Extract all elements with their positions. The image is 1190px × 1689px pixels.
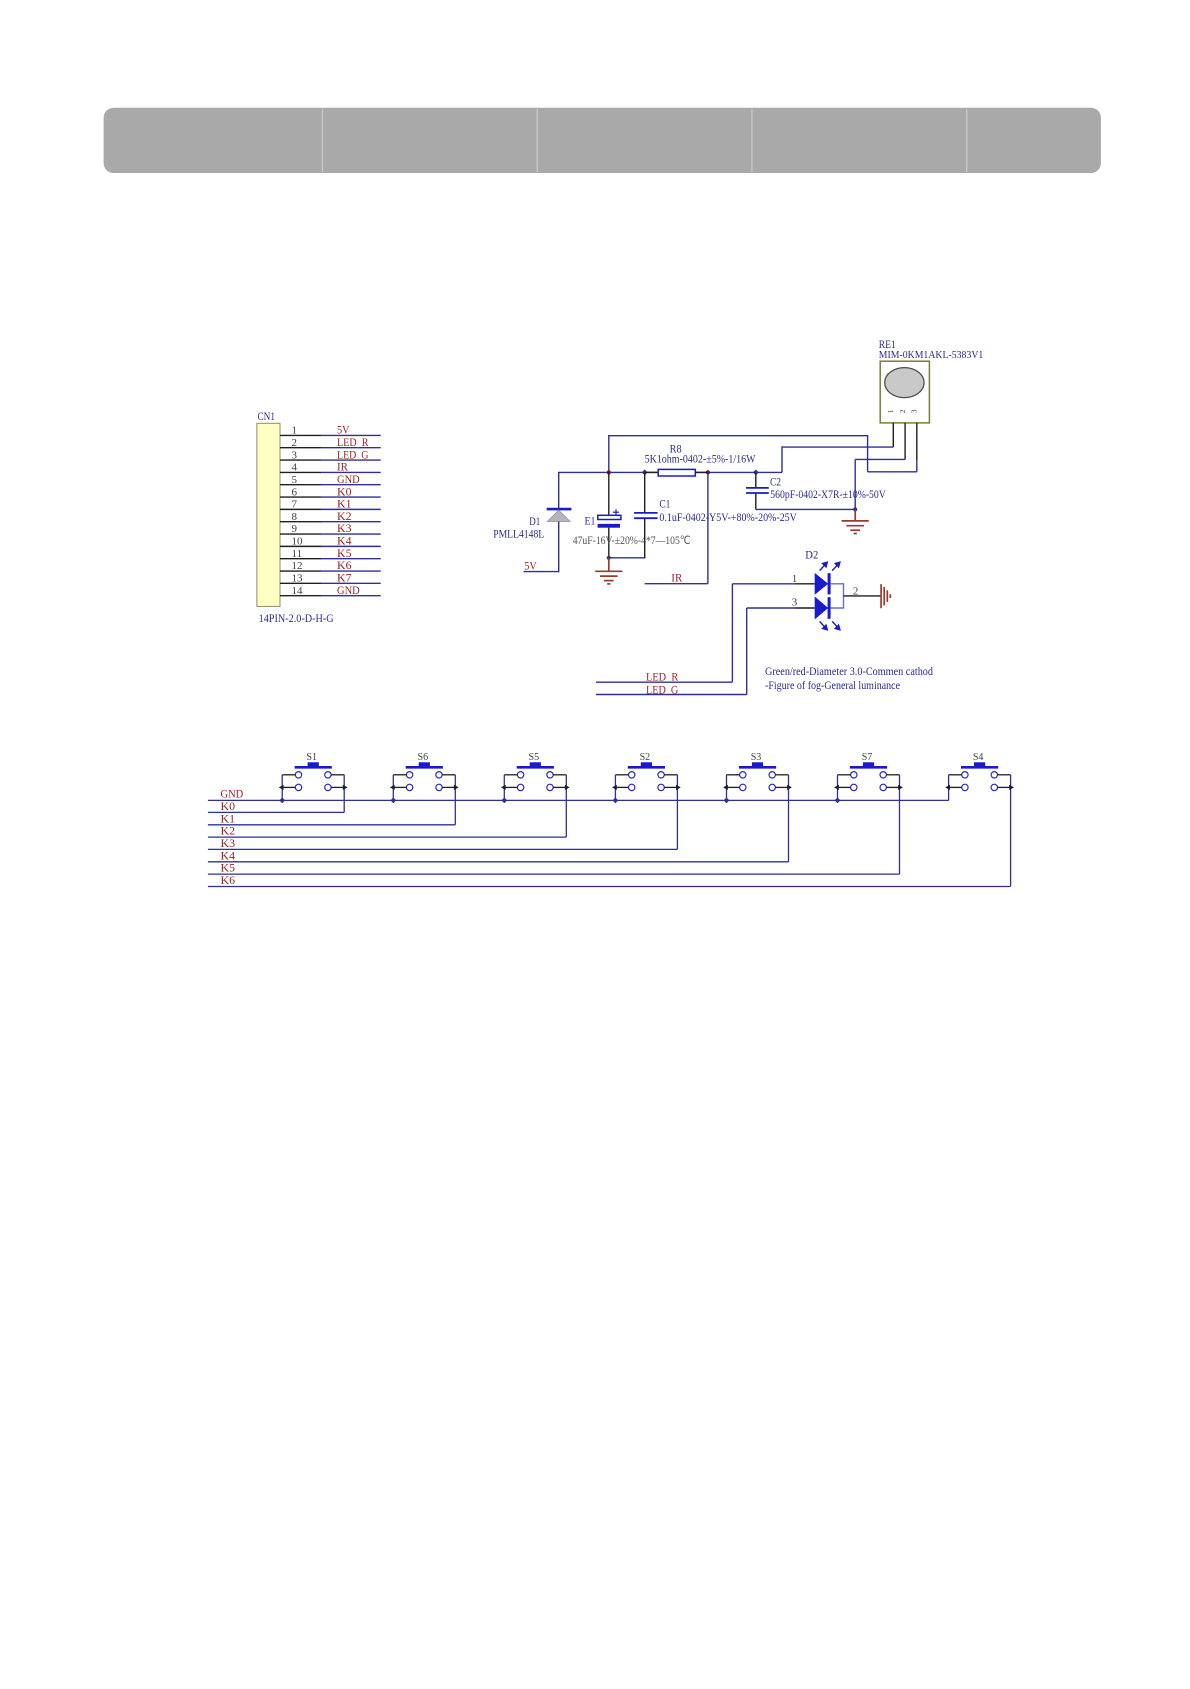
svg-text:K2: K2 xyxy=(337,511,352,523)
wire RE1 pin2 riser xyxy=(854,459,856,509)
junction S6 on GND rail xyxy=(390,798,396,804)
capacitor C1 bottom lead xyxy=(644,518,646,558)
CN1 pin 11 wire xyxy=(280,558,381,560)
svg-text:S2: S2 xyxy=(640,752,651,763)
diode D1 cathode bar xyxy=(547,508,572,511)
svg-text:0.1uF-0402-Y5V-+80%-20%-25V: 0.1uF-0402-Y5V-+80%-20%-25V xyxy=(659,512,797,524)
svg-text:CN1: CN1 xyxy=(258,411,276,423)
net K2 rail xyxy=(208,836,566,838)
svg-text:MIM-0KM1AKL-5383V1: MIM-0KM1AKL-5383V1 xyxy=(879,349,984,361)
switch S2 contact circles xyxy=(629,772,665,791)
CN1 pin 2 wire xyxy=(280,447,381,449)
junction at C2 top xyxy=(753,470,759,476)
svg-text:13: 13 xyxy=(292,573,304,585)
svg-text:K6: K6 xyxy=(221,875,236,887)
wire LED_G vertical xyxy=(746,608,748,695)
wire LED_R vertical xyxy=(731,584,733,682)
CN1 pin 9 wire xyxy=(280,533,381,535)
switch S6 pin stubs xyxy=(393,775,455,788)
diode D1 anode wire xyxy=(558,522,560,572)
switch S3 contact circles xyxy=(740,772,776,791)
page header bar (gray rounded banner) xyxy=(104,108,1101,173)
svg-text:K4: K4 xyxy=(337,536,352,548)
switch S7 actuator bar xyxy=(850,766,887,769)
switch S2 junction arrows xyxy=(612,785,681,790)
net K1 rail xyxy=(208,824,455,826)
switch S3 right vertical to K4 xyxy=(788,775,790,862)
switch S1 right vertical to K0 xyxy=(343,775,345,813)
CN1 pin 6 wire xyxy=(280,496,381,498)
svg-text:K3: K3 xyxy=(221,838,236,850)
svg-text:LED_G: LED_G xyxy=(337,449,369,461)
junction at C1 top xyxy=(642,470,648,476)
svg-text:2: 2 xyxy=(853,585,859,597)
switch S7 contact circles xyxy=(851,772,887,791)
diode D1 cathode wire xyxy=(558,472,560,509)
wire RE1 pin1 riser xyxy=(781,446,783,472)
junction S1 on GND rail xyxy=(279,798,285,804)
capacitor E1 negative plate xyxy=(598,524,620,528)
switch S2 right vertical to K3 xyxy=(676,775,678,850)
wire RE1 pin2 horizontal xyxy=(855,458,905,460)
RE1 pin 1 stub xyxy=(892,423,894,447)
svg-text:4: 4 xyxy=(292,462,298,474)
CN1 pin 8 wire xyxy=(280,521,381,523)
wire E1/C1 ground rail xyxy=(609,557,645,559)
resistor R8 right stub xyxy=(695,471,708,473)
switch S4 pin stubs xyxy=(949,775,1011,788)
switch S5 actuator bar xyxy=(517,766,554,769)
svg-text:S3: S3 xyxy=(751,752,762,763)
switch S4 junction arrows xyxy=(945,785,1014,790)
CN1 pin 10 wire xyxy=(280,545,381,547)
svg-text:11: 11 xyxy=(292,548,303,560)
capacitor E1 bottom lead xyxy=(608,528,610,558)
svg-text:K6: K6 xyxy=(337,560,352,572)
wire 5V top horizontal run xyxy=(609,435,868,437)
capacitor E1 top lead xyxy=(608,472,610,515)
switch S4 left vertical to GND xyxy=(948,775,950,801)
svg-text:S6: S6 xyxy=(418,752,429,763)
capacitor C2 top plate xyxy=(746,487,769,489)
svg-text:5: 5 xyxy=(292,474,298,486)
junction S2 on GND rail xyxy=(613,798,619,804)
CN1 pin 12 wire xyxy=(280,570,381,572)
switch S1 actuator bar xyxy=(295,766,332,769)
switch S1 left vertical to GND xyxy=(281,775,283,801)
wire 5V drop to main node xyxy=(608,435,610,472)
svg-text:LED_G: LED_G xyxy=(646,684,678,696)
capacitor C2 bottom lead xyxy=(755,493,757,509)
svg-text:IR: IR xyxy=(671,573,682,585)
diode D1 body (gray triangle) xyxy=(547,510,570,521)
switch S7 left vertical to GND xyxy=(837,775,839,801)
connector CN1 body xyxy=(257,423,280,606)
LED D2 common cathode bracket xyxy=(831,584,844,608)
svg-text:1: 1 xyxy=(792,573,798,585)
switch S2 button xyxy=(641,762,652,767)
net K6 rail xyxy=(208,886,1011,888)
net GND rail xyxy=(208,799,949,801)
wire IR riser to R8 output xyxy=(707,472,709,583)
svg-text:K7: K7 xyxy=(337,573,352,585)
svg-text:K5: K5 xyxy=(337,548,352,560)
svg-text:IR: IR xyxy=(337,462,348,474)
switch S3 pin stubs xyxy=(727,775,789,788)
svg-text:3: 3 xyxy=(792,597,798,609)
resistor R8 body xyxy=(658,469,695,476)
svg-text:S4: S4 xyxy=(973,752,984,763)
switch S6 junction arrows xyxy=(390,785,459,790)
CN1 pin 3 wire xyxy=(280,459,381,461)
switch S1 button xyxy=(308,762,319,767)
switch S5 junction arrows xyxy=(501,785,570,790)
svg-text:10: 10 xyxy=(292,536,304,548)
switch S5 right vertical to K2 xyxy=(565,775,567,837)
svg-text:PMLL4148L: PMLL4148L xyxy=(493,529,544,541)
switch S2 actuator bar xyxy=(628,766,665,769)
wire 5V to RE1 pin3 horizontal xyxy=(868,471,917,473)
CN1 pin 1 wire xyxy=(280,434,381,436)
svg-text:K0: K0 xyxy=(221,801,236,813)
switch S2 pin stubs xyxy=(615,775,677,788)
svg-text:LED_R: LED_R xyxy=(337,437,369,449)
wire IR stub horizontal xyxy=(645,583,708,585)
svg-text:1: 1 xyxy=(886,409,895,413)
switch S7 pin stubs xyxy=(838,775,900,788)
CN1 pin 14 wire xyxy=(280,595,381,597)
svg-text:5K1ohm-0402-±5%-1/16W: 5K1ohm-0402-±5%-1/16W xyxy=(645,453,756,465)
CN1 pin 5 wire xyxy=(280,484,381,486)
svg-text:9: 9 xyxy=(292,523,298,535)
LED D2 emission arrows (bottom) xyxy=(820,621,840,629)
switch S4 actuator bar xyxy=(961,766,998,769)
svg-text:C1: C1 xyxy=(659,498,670,510)
svg-text:5V: 5V xyxy=(524,561,537,573)
svg-text:8: 8 xyxy=(292,511,298,523)
svg-text:K5: K5 xyxy=(221,863,236,875)
svg-text:1: 1 xyxy=(292,425,298,437)
svg-text:S7: S7 xyxy=(862,752,873,763)
switch S5 left vertical to GND xyxy=(503,775,505,801)
ground symbol (at RE1) xyxy=(842,509,869,533)
svg-text:GND: GND xyxy=(221,788,244,800)
ground symbol (D2 common cathode, sideways) xyxy=(881,584,890,608)
svg-text:3: 3 xyxy=(292,449,298,461)
wire 5V stub to D1 xyxy=(524,571,560,573)
RE1 pin 2 stub xyxy=(904,423,906,460)
net K4 rail xyxy=(208,861,789,863)
CN1 pin 7 wire xyxy=(280,508,381,510)
svg-text:12: 12 xyxy=(292,560,303,572)
junction at C2 ground node xyxy=(853,507,857,511)
svg-text:2: 2 xyxy=(898,409,907,413)
switch S4 right vertical to K6 xyxy=(1010,775,1012,887)
svg-text:7: 7 xyxy=(292,499,298,511)
net K5 rail xyxy=(208,873,900,875)
switch S4 contact circles xyxy=(962,772,998,791)
svg-text:14PIN-2.0-D-H-G: 14PIN-2.0-D-H-G xyxy=(259,611,334,625)
svg-text:3: 3 xyxy=(910,409,919,413)
capacitor E1 plus sign xyxy=(613,509,619,515)
svg-text:K0: K0 xyxy=(337,486,352,498)
svg-text:K1: K1 xyxy=(221,813,236,825)
capacitor C2 bottom plate xyxy=(746,492,769,494)
capacitor C2 top lead xyxy=(755,472,757,488)
wire LED_G horizontal xyxy=(596,694,747,696)
switch S6 right vertical to K1 xyxy=(454,775,456,825)
svg-text:47uF-16V-±20%-4*7—105℃: 47uF-16V-±20%-4*7—105℃ xyxy=(573,535,691,547)
switch S3 left vertical to GND xyxy=(726,775,728,801)
svg-text:K3: K3 xyxy=(337,523,352,535)
net K3 rail xyxy=(208,848,678,850)
svg-text:D1: D1 xyxy=(529,516,540,528)
CN1 pin 4 wire xyxy=(280,471,381,473)
node junction at E1 top xyxy=(607,470,611,474)
switch S7 button xyxy=(863,762,874,767)
receiver RE1 body xyxy=(880,361,929,423)
svg-text:S1: S1 xyxy=(306,752,317,763)
switch S6 contact circles xyxy=(406,772,442,791)
capacitor E1 positive plate xyxy=(598,515,621,519)
capacitor C1 bottom plate xyxy=(634,517,658,519)
switch S4 button xyxy=(974,762,985,767)
LED D2 red diode triangle xyxy=(815,573,829,595)
switch S1 pin stubs xyxy=(282,775,344,788)
CN1 pin 13 wire xyxy=(280,582,381,584)
resistor R8 left stub xyxy=(645,471,659,473)
capacitor C1 top plate xyxy=(634,512,658,514)
switch S6 left vertical to GND xyxy=(392,775,394,801)
switch S3 actuator bar xyxy=(739,766,776,769)
LED D2 red cathode bar xyxy=(828,573,831,594)
LED D2 red anode wire (pin 1) xyxy=(732,583,814,585)
svg-text:560pF-0402-X7R-±10%-50V: 560pF-0402-X7R-±10%-50V xyxy=(770,489,886,501)
svg-text:GND: GND xyxy=(337,474,360,486)
receiver RE1 lens (gray ellipse) xyxy=(885,368,924,398)
svg-text:6: 6 xyxy=(292,486,298,498)
capacitor C1 top lead xyxy=(644,472,646,513)
svg-text:K2: K2 xyxy=(221,826,236,838)
svg-text:D2: D2 xyxy=(805,550,818,562)
switch S5 contact circles xyxy=(517,772,553,791)
svg-text:Green/red-Diameter 3.0-Commen: Green/red-Diameter 3.0-Commen cathod xyxy=(765,666,933,678)
RE1 pin 3 stub xyxy=(916,423,918,472)
svg-text:E1: E1 xyxy=(585,516,596,528)
LED D2 green diode triangle xyxy=(815,597,829,620)
svg-text:K1: K1 xyxy=(337,499,352,511)
svg-text:LED_R: LED_R xyxy=(646,671,679,683)
node junction at IR branch xyxy=(706,470,710,474)
svg-text:K4: K4 xyxy=(221,850,236,862)
svg-text:-Figure of fog-General luminan: -Figure of fog-General luminance xyxy=(765,680,900,692)
switch S5 pin stubs xyxy=(504,775,566,788)
wire 5V right corner down xyxy=(867,435,869,472)
junction at E1 ground node xyxy=(607,556,611,560)
switch S7 junction arrows xyxy=(834,785,903,790)
switch S3 junction arrows xyxy=(723,785,792,790)
wire LED_R horizontal xyxy=(596,681,732,683)
junction S7 on GND rail xyxy=(835,798,841,804)
switch S2 left vertical to GND xyxy=(614,775,616,801)
switch S6 actuator bar xyxy=(406,766,443,769)
junction S3 on GND rail xyxy=(724,798,730,804)
svg-text:S5: S5 xyxy=(529,752,540,763)
wire R8 output to corner xyxy=(695,471,782,473)
wire RE1 pin1 horizontal xyxy=(782,446,893,448)
LED D2 emission arrows (top) xyxy=(820,562,840,570)
switch S6 button xyxy=(419,762,430,767)
switch S5 button xyxy=(530,762,541,767)
svg-text:C2: C2 xyxy=(770,476,781,488)
net K0 rail xyxy=(208,811,344,813)
svg-text:5V: 5V xyxy=(337,425,350,437)
wire main node horizontal (D1 to R8) xyxy=(559,471,659,473)
switch S1 contact circles xyxy=(295,772,331,791)
switch S3 button xyxy=(752,762,763,767)
LED D2 green cathode bar xyxy=(828,597,831,619)
svg-text:14: 14 xyxy=(292,585,304,597)
switch S1 junction arrows xyxy=(279,785,348,790)
svg-text:GND: GND xyxy=(337,585,360,597)
wire C2 bottom to ground node xyxy=(756,508,855,510)
junction S5 on GND rail xyxy=(501,798,507,804)
LED D2 green anode wire (pin 3) xyxy=(747,607,815,609)
ground symbol (main filter) xyxy=(595,558,622,584)
svg-text:2: 2 xyxy=(292,437,298,449)
wire D2 pin 2 to ground xyxy=(844,595,881,597)
switch S7 right vertical to K5 xyxy=(899,775,901,874)
